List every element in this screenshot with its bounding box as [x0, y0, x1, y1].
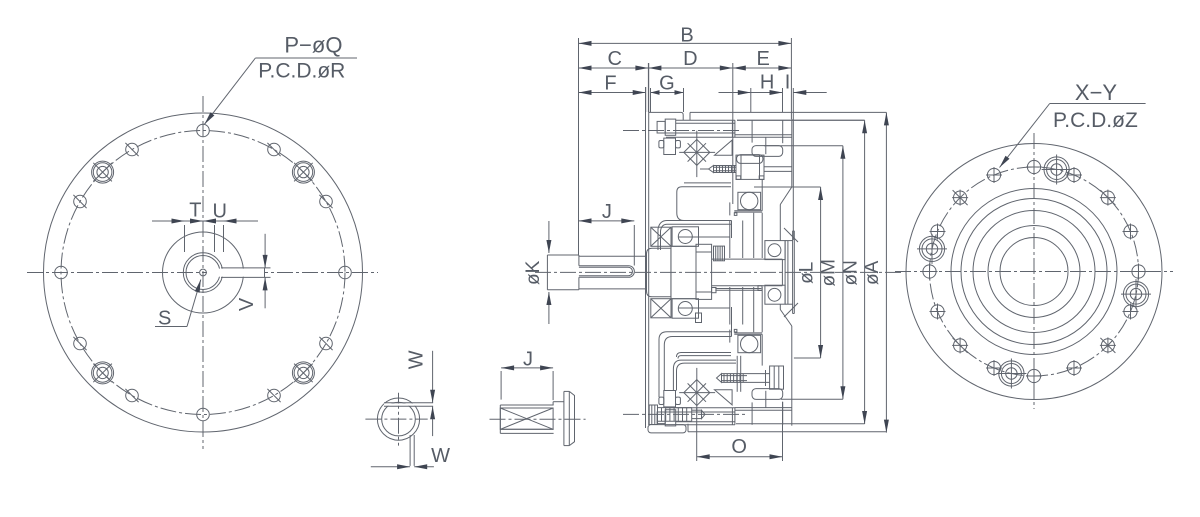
bore chamfer bottom — [784, 303, 798, 317]
dimension H arrows — [719, 90, 827, 95]
housing top face — [690, 111, 886, 113]
flexspline cup floor bottom — [677, 353, 732, 359]
extension line oL bottom — [794, 357, 821, 359]
extension line oL top — [754, 186, 821, 188]
left view slashed hole at 210 deg — [73, 337, 86, 350]
label B — [680, 24, 693, 46]
oil seal top — [651, 227, 671, 246]
right view hole at 225.0 deg — [952, 337, 968, 353]
stud bolt top — [700, 166, 736, 173]
left view vertical centerline — [202, 96, 204, 449]
bolt axis centerline top — [623, 130, 742, 132]
left view slashed hole at 60 deg — [267, 143, 280, 156]
extension line O left — [696, 408, 698, 461]
leader P.C.D. — [205, 58, 358, 124]
detail key bottom lines — [500, 405, 553, 433]
dimension oK arrows — [546, 221, 551, 324]
input bearing bottom — [672, 299, 698, 319]
svg-text:O: O — [731, 436, 747, 458]
svg-text:U: U — [212, 201, 226, 223]
extension line D-E — [732, 63, 734, 204]
label P.C.D.oZ — [1053, 109, 1138, 132]
label X-Y — [1075, 80, 1118, 105]
svg-text:B: B — [680, 24, 693, 46]
label oK — [523, 260, 544, 285]
left view stud hole at 225 deg — [92, 362, 114, 384]
right view hole at 180.0 deg — [922, 264, 938, 280]
dimension D — [648, 66, 732, 71]
svg-text:I: I — [785, 72, 791, 94]
gear rim lines top — [735, 135, 792, 154]
left view slashed hole at 300 deg — [267, 389, 280, 402]
shaft key slot — [579, 266, 634, 278]
extension line J right — [633, 225, 635, 266]
flexspline flange block bottom — [664, 391, 676, 407]
left view slashed hole at 240 deg — [125, 389, 138, 402]
right view hole at 315.0 deg — [1100, 337, 1116, 353]
extension line B right — [790, 38, 792, 119]
leader P.C.D.oZ — [1000, 104, 1146, 168]
label U — [212, 201, 226, 223]
label D — [683, 48, 697, 70]
right view hole at 0.0 deg — [1131, 264, 1147, 280]
right view bolt P.C.D. circle — [930, 167, 1139, 376]
dimension F — [579, 90, 646, 95]
flexspline cup wall bottom — [673, 360, 736, 390]
left view plain hole at 270 deg — [197, 408, 210, 421]
right view inner circle r46 — [988, 226, 1080, 318]
label V — [236, 297, 258, 311]
left view plain hole at 180 deg — [55, 266, 68, 279]
extension line oN bottom — [736, 423, 865, 425]
leader S — [155, 280, 201, 327]
label oA — [862, 260, 883, 285]
bearing wedge right top — [715, 140, 733, 155]
label oM — [819, 259, 840, 286]
label O — [731, 436, 747, 458]
extension line B left — [578, 38, 580, 256]
shaft center block — [671, 246, 696, 298]
bolt block top — [736, 155, 764, 179]
svg-text:G: G — [659, 73, 675, 95]
gear rim lines bottom — [735, 391, 792, 410]
bolt boss wall left top — [751, 120, 753, 142]
shaft end section — [547, 255, 579, 290]
svg-text:T: T — [189, 200, 201, 222]
detail keyway lines — [384, 403, 433, 407]
left view plain hole at 0 deg — [339, 266, 352, 279]
right view hole at 67.5 deg — [1066, 167, 1082, 183]
detail shaft-end horizontal centerline — [365, 418, 427, 420]
dimension B — [579, 41, 792, 46]
left view outer circle — [44, 113, 363, 432]
leader bolt bottom — [717, 366, 784, 389]
svg-text:P−øQ: P−øQ — [284, 33, 342, 58]
left view stud hole at 45 deg — [292, 161, 314, 183]
dimension U extension lines — [215, 225, 224, 252]
output keyway lines — [712, 288, 762, 293]
extension line oM bottom — [781, 398, 843, 400]
extension lines J key — [501, 371, 553, 400]
retainer tab left top — [659, 141, 664, 148]
left view boss circle — [163, 232, 244, 313]
detail shaft-end inner circle — [382, 402, 416, 436]
right view outer circle — [906, 144, 1162, 400]
block lines right top — [764, 167, 792, 172]
right view inner circle r83 — [951, 189, 1117, 355]
dimension E — [733, 66, 792, 71]
dimension J key — [501, 365, 553, 370]
label H — [760, 72, 774, 94]
label S — [158, 307, 171, 329]
extension line G right — [683, 88, 685, 112]
label C — [607, 48, 621, 70]
svg-text:X−Y: X−Y — [1075, 80, 1118, 105]
right view pin hole at 167.5 deg — [917, 234, 947, 264]
output support bearing top — [765, 241, 785, 260]
right view hole at 292.5 deg — [1066, 360, 1082, 376]
dimension J — [579, 218, 635, 223]
housing joint edge bottom — [687, 424, 689, 432]
housing bottom foot — [648, 425, 686, 433]
label oL — [796, 262, 817, 284]
svg-text:D: D — [683, 48, 697, 70]
left view plain hole at 90 deg — [197, 124, 210, 137]
shaft keyed section — [579, 256, 646, 289]
right view hole at 157.5 deg — [930, 224, 946, 240]
output support bearing bottom — [758, 285, 785, 304]
right view horizontal centerline — [895, 271, 1173, 273]
housing top step — [737, 119, 865, 121]
label oN — [840, 260, 861, 285]
left view horizontal centerline — [27, 272, 378, 274]
label J key — [523, 348, 533, 370]
bolt boss wall right bottom — [782, 402, 784, 425]
dimension oA — [884, 112, 889, 432]
extension line oA bottom — [688, 431, 886, 433]
output key hatch — [714, 246, 725, 261]
label F — [604, 73, 616, 95]
section centerline — [535, 271, 902, 273]
extension line oN top — [737, 119, 865, 121]
left view slashed hole at 330 deg — [319, 337, 332, 350]
left view slashed hole at 30 deg — [319, 195, 332, 208]
svg-text:W: W — [431, 445, 450, 467]
right view hole at 112.5 deg — [986, 167, 1002, 183]
input bearing top — [672, 227, 698, 247]
ring gear block bottom — [657, 408, 735, 426]
right view inner circle r73 — [961, 199, 1107, 345]
housing right chamfer top — [780, 187, 792, 205]
flexspline cup top — [658, 183, 732, 250]
bolt hole slot bottom — [752, 389, 783, 400]
detail key centerline — [490, 418, 586, 420]
cross roller bearing bottom — [679, 368, 715, 414]
right view hole at 247.5 deg — [986, 360, 1002, 376]
retainer tab right top — [676, 141, 681, 148]
left view hub circle outer — [183, 253, 222, 292]
right view pin hole at 77.5 deg — [1042, 155, 1072, 185]
dimension T-U line — [152, 219, 258, 224]
dimension C — [579, 66, 649, 71]
dimension O — [697, 454, 783, 459]
detail key width extension lines — [410, 435, 414, 466]
dimension oN — [862, 120, 867, 424]
right view hole at 337.5 deg — [1123, 304, 1139, 320]
housing right chamfer bottom — [780, 310, 792, 327]
right view inner circle r61 — [973, 211, 1095, 333]
detail key block — [500, 408, 553, 429]
right view hole at 45.0 deg — [1100, 190, 1116, 206]
left view slashed hole at 120 deg — [125, 143, 138, 156]
bolt washer walls bottom — [737, 356, 741, 392]
right view hole at 135.0 deg — [952, 190, 968, 206]
right view hole at 270.0 deg — [1026, 368, 1042, 384]
housing left face inner — [648, 63, 650, 425]
right view inner circle r34 — [1000, 238, 1068, 306]
retainer tab right bottom — [676, 397, 681, 404]
left view stud hole at 315 deg — [292, 362, 314, 384]
label W top — [406, 350, 428, 369]
extension line G left — [650, 88, 652, 112]
extension line oM top — [764, 145, 843, 147]
right view hole at 90.0 deg — [1026, 159, 1042, 175]
left view center hole — [200, 269, 207, 276]
label W bottom — [431, 445, 450, 467]
housing left face outer — [645, 87, 647, 428]
output shaft — [712, 259, 783, 286]
dimension W bottom — [371, 464, 434, 469]
svg-text:F: F — [604, 73, 616, 95]
bolt boss wall right top — [782, 120, 784, 143]
housing right face mid bottom — [779, 304, 781, 309]
shaft step inside housing — [647, 248, 671, 297]
bearing wedge right bottom — [715, 390, 733, 405]
label T — [189, 200, 201, 222]
svg-text:H: H — [760, 72, 774, 94]
housing top left edge — [649, 112, 683, 120]
extension line C-D — [647, 63, 649, 112]
detail shaft-end vertical centerline — [398, 393, 400, 446]
label G — [659, 73, 675, 95]
svg-text:P.C.D.øR: P.C.D.øR — [258, 60, 345, 83]
dimension W top arrows — [430, 351, 435, 436]
detail key step — [553, 402, 564, 405]
right view vertical centerline — [1033, 133, 1035, 409]
left view keyway slot — [207, 268, 271, 278]
svg-text:J: J — [602, 201, 612, 223]
detail key top strip — [500, 405, 553, 408]
extension line H left — [750, 88, 752, 112]
label E — [757, 48, 770, 70]
detail shaft-end outer circle — [377, 398, 419, 440]
detail flange — [564, 391, 575, 445]
extension line F right — [645, 87, 647, 112]
svg-text:V: V — [236, 297, 258, 311]
housing joint edge top — [689, 112, 691, 120]
label P.C.D.oR — [258, 60, 345, 83]
left view stud hole at 135 deg — [92, 161, 114, 183]
support wall top — [678, 179, 762, 258]
bolt boss wall left bottom — [751, 402, 753, 424]
output bearing bottom — [738, 335, 761, 352]
bearing retainer tab bottom — [696, 313, 702, 323]
dimension V arrows — [263, 234, 268, 308]
label J — [602, 201, 612, 223]
svg-text:J: J — [523, 348, 533, 370]
end cover — [785, 231, 794, 314]
dimension G — [651, 90, 684, 95]
oil seal bottom — [651, 299, 671, 318]
left view bolt P.C.D. circle — [61, 131, 345, 415]
cross roller bearing top — [679, 131, 715, 177]
housing right face mid top — [779, 205, 781, 241]
svg-text:W: W — [406, 350, 428, 369]
svg-text:C: C — [607, 48, 621, 70]
right view pin hole at 347.5 deg — [1121, 279, 1151, 309]
support wall bottom — [678, 287, 762, 366]
bolt axis centerline bottom — [623, 413, 748, 415]
left view slashed hole at 150 deg — [73, 195, 86, 208]
extension line O right — [782, 402, 784, 461]
right view pin hole at 257.5 deg — [996, 359, 1026, 389]
flange bolt bottom — [649, 405, 705, 425]
ring gear block top — [657, 119, 735, 137]
dynamic spline wall bottom — [659, 307, 732, 397]
label I — [785, 72, 791, 94]
flexspline flange block top — [664, 138, 676, 154]
bolt hole slot top 2 — [737, 155, 763, 164]
dimension oM — [840, 146, 845, 399]
dimension T extension line — [184, 225, 186, 252]
bolt hole slot top — [752, 146, 783, 157]
svg-text:E: E — [757, 48, 770, 70]
housing right face upper — [791, 119, 793, 187]
dimension oL — [818, 187, 823, 358]
right view hole at 202.5 deg — [930, 304, 946, 320]
extension line I right — [792, 88, 794, 240]
extension line H right — [782, 88, 784, 112]
right view hole at 22.5 deg — [1123, 224, 1139, 240]
bore chamfer top — [784, 228, 798, 242]
retainer tab left bottom — [659, 397, 664, 404]
housing right face lower — [791, 326, 793, 426]
label P-oQ — [284, 33, 342, 58]
svg-text:P.C.D.øZ: P.C.D.øZ — [1053, 109, 1138, 132]
output bearing top — [738, 192, 761, 209]
left view hub circle inner — [186, 256, 220, 290]
wave generator hub — [696, 244, 712, 299]
